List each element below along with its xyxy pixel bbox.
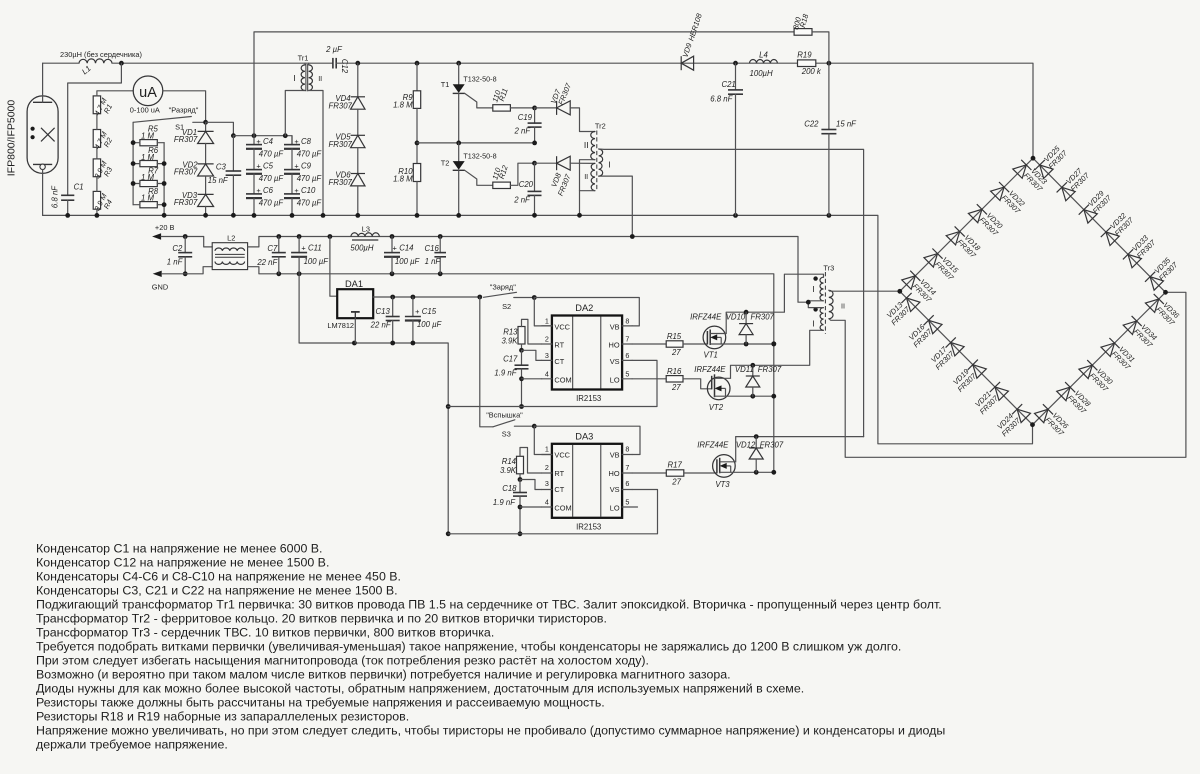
diode VD11 (746, 375, 760, 377)
svg-text:6: 6 (625, 479, 629, 488)
IC DA3 IR2153 (552, 444, 622, 518)
C22 labels (804, 120, 857, 129)
wire Tr3 II top to diamond left (829, 289, 900, 292)
capacitor C17 (515, 364, 529, 366)
svg-text:Резисторы R18 и R19 наборные и: Резисторы R18 и R19 наборные из запаралл… (36, 710, 409, 724)
nodes C17/COM (519, 376, 524, 409)
svg-text:+: + (294, 162, 298, 171)
notes text block (36, 542, 945, 752)
diode VD23 (1013, 160, 1032, 179)
wire (510, 107, 534, 109)
S2 label (502, 302, 511, 311)
wire meter to S1 node (163, 91, 206, 123)
wire S1 node to C3 node (206, 122, 234, 135)
wire pin8 stub (622, 454, 632, 456)
wire R2-R3 (96, 147, 98, 159)
C8 labels (294, 137, 322, 158)
svg-text:II: II (584, 172, 588, 181)
svg-text:Tr3: Tr3 (823, 264, 834, 273)
wire +12V down to S3 (480, 297, 493, 427)
svg-text:3.9K: 3.9K (500, 466, 517, 475)
R12 labels (490, 164, 510, 181)
VD7 labels (549, 81, 574, 106)
VD10 labels (726, 312, 775, 321)
wire (534, 127, 536, 143)
wire +20V to DA1 (330, 237, 337, 297)
svg-text:+: + (256, 186, 260, 195)
wire T1 cathode (458, 93, 460, 142)
svg-text:100 µF: 100 µF (395, 257, 421, 266)
wire lamp top to L1 (42, 63, 44, 102)
VD21 labels (972, 387, 1001, 416)
voltage regulator DA1 (337, 289, 373, 318)
svg-text:FR307: FR307 (174, 198, 198, 207)
diode VD33 (1123, 249, 1142, 267)
L2 label (227, 234, 235, 243)
wire S3 contact (514, 425, 534, 427)
svg-text:1 nF: 1 nF (425, 257, 442, 266)
resistor R8 (140, 202, 157, 208)
wire GND to L2 (162, 267, 213, 274)
wire (133, 204, 140, 206)
wire R1 to meter (97, 91, 133, 96)
svg-text:HO: HO (609, 469, 620, 478)
wire (416, 108, 418, 163)
svg-text:R15: R15 (667, 332, 682, 341)
VD18 labels (955, 232, 984, 261)
C13 labels (370, 307, 392, 329)
wire Tr2 IIb to bus (580, 190, 596, 192)
svg-text:100 µF: 100 µF (304, 257, 330, 266)
wire (391, 237, 393, 253)
capacitor C21 (728, 89, 743, 91)
wire C22 to rail (828, 134, 830, 216)
diode VD31 (1101, 338, 1120, 357)
wire diamond edge BL (900, 291, 1033, 424)
R19 labels (797, 51, 822, 77)
svg-text:3.9K: 3.9K (501, 337, 518, 346)
VD12 labels (736, 441, 784, 450)
svg-text:IR2153: IR2153 (576, 394, 601, 403)
svg-text:IR2153: IR2153 (576, 522, 601, 531)
wire T2 gate (465, 170, 493, 185)
nodes right bus (162, 161, 167, 207)
C2 labels (167, 244, 184, 267)
VD14 labels (911, 276, 940, 305)
svg-text:FR307: FR307 (328, 178, 352, 187)
svg-text:22 nF: 22 nF (370, 320, 392, 329)
svg-text:470 µF: 470 µF (297, 150, 323, 159)
svg-text:0-100 uA: 0-100 uA (130, 106, 160, 115)
inductor L4 (750, 60, 778, 64)
svg-text:C7: C7 (267, 244, 278, 253)
R15 labels (667, 332, 682, 357)
wire Tr2 IIa to rail (580, 160, 596, 216)
wire (416, 63, 418, 91)
C14 labels (393, 244, 421, 267)
svg-text:I: I (812, 319, 814, 329)
VD22 labels (1000, 187, 1029, 216)
C5 labels (256, 162, 284, 183)
VD32 labels (1107, 209, 1136, 238)
IC DA2 IR2153 (552, 316, 622, 390)
svg-text:2: 2 (545, 335, 549, 344)
wire ground chain (299, 274, 448, 534)
svg-text:+20 В: +20 В (155, 223, 175, 232)
svg-text:DA2: DA2 (575, 303, 593, 313)
capacitor C19 (528, 122, 542, 124)
wire (291, 174, 293, 194)
svg-text:R19: R19 (797, 51, 812, 60)
diode VD35 (1145, 272, 1164, 291)
resistor R18 (794, 29, 812, 36)
wire to DA2 VCC (534, 298, 552, 326)
node C2 top (183, 234, 188, 239)
VD20 labels (978, 209, 1007, 238)
wire pin3 stub (542, 489, 552, 491)
svg-text:3: 3 (545, 479, 549, 488)
nodes C4/C8 top (252, 133, 288, 138)
svg-text:II: II (318, 74, 322, 83)
C19 labels (513, 113, 532, 136)
svg-text:LO: LO (610, 375, 620, 384)
transformer Tr3 (813, 272, 833, 334)
R5 labels (141, 125, 158, 141)
lamp type label (6, 100, 18, 177)
wire (253, 136, 255, 145)
wire (535, 162, 557, 164)
capacitor C3 (226, 170, 242, 172)
wire VD7 to Tr2 (570, 108, 595, 132)
R2 labels (92, 129, 114, 150)
wire L1 to C12 (112, 62, 333, 64)
resistor R2 (93, 130, 100, 148)
svg-text:R17: R17 (668, 461, 683, 470)
wire (304, 63, 306, 65)
svg-text:C2: C2 (172, 244, 183, 253)
svg-text:T1: T1 (441, 80, 450, 89)
svg-text:LO: LO (610, 504, 620, 513)
wire (357, 63, 359, 97)
L1 labels (60, 50, 142, 76)
inductor L2 (212, 243, 247, 270)
wire to C1 (68, 63, 122, 195)
wire (534, 163, 536, 191)
svg-text:"Разряд": "Разряд" (169, 106, 199, 115)
wire pin1 stub (542, 325, 552, 327)
svg-text:VD12: VD12 (736, 441, 756, 450)
VD4 labels (328, 94, 352, 111)
wire to DA3 VCC (534, 426, 552, 454)
capacitor C10 (284, 193, 300, 195)
node Tr3 center tap (806, 300, 811, 305)
svg-text:II: II (841, 302, 845, 311)
svg-text:27: 27 (671, 477, 681, 486)
R13 labels (501, 328, 518, 346)
wire (458, 63, 460, 84)
svg-text:C1: C1 (74, 183, 84, 192)
DA1 labels (327, 279, 363, 330)
wire Tr2 I bottom to +20V (599, 176, 633, 236)
VD17 labels (928, 343, 957, 372)
wire diamond edge TR (1033, 158, 1166, 292)
R4 labels (92, 191, 114, 212)
C10 labels (294, 186, 322, 207)
resistor R4 (93, 191, 100, 209)
resistor R13 (518, 327, 525, 345)
wire pin5 stub open (622, 506, 637, 508)
switch label "Vspyshka" (486, 411, 523, 420)
wire R5-R8 right bus (163, 143, 165, 216)
R7 labels (141, 166, 159, 182)
resistor R14 (517, 456, 524, 474)
capacitor C11 (291, 252, 307, 254)
diode VD22 (991, 182, 1010, 201)
wire pin5 stub (622, 378, 632, 380)
wire (253, 174, 255, 194)
wire R18 right (812, 32, 829, 63)
C3 labels (208, 162, 229, 185)
capacitor C20 (528, 190, 542, 192)
svg-text:C21: C21 (721, 80, 735, 89)
wire (232, 136, 234, 171)
Tr2 labels (584, 122, 611, 182)
svg-text:C10: C10 (301, 186, 316, 195)
resistor R15 (666, 341, 683, 347)
svg-text:15 nF: 15 nF (208, 176, 229, 185)
svg-text:I: I (812, 284, 814, 294)
svg-text:+: + (415, 307, 419, 316)
wire (632, 472, 666, 474)
wire R3-R4 (96, 177, 98, 192)
svg-text:VCC: VCC (554, 451, 570, 460)
wire S1 contact (193, 121, 206, 123)
diode VD36 (1145, 294, 1164, 313)
C15 labels (415, 307, 442, 329)
capacitor C16 (434, 252, 446, 254)
arrow +20V (152, 233, 161, 239)
diode VD14 (902, 271, 921, 290)
wire DA1 gnd (354, 318, 356, 343)
svg-text:Конденсатор С1 на напряжение н: Конденсатор С1 на напряжение не менее 60… (36, 542, 323, 556)
R11 labels (490, 87, 509, 103)
wire R14 hook to RT (520, 448, 542, 474)
svg-text:I: I (608, 159, 610, 169)
diode VD34 (1123, 316, 1142, 335)
svg-text:3: 3 (545, 351, 549, 360)
svg-text:C11: C11 (308, 244, 322, 253)
VT2 labels (694, 365, 726, 412)
node DA2 VCC feed (532, 295, 537, 300)
svg-text:Tr2: Tr2 (595, 122, 606, 131)
svg-text:IRFZ44E: IRFZ44E (697, 441, 729, 450)
wire to rail (253, 198, 255, 215)
wire Tr3 center tap (808, 301, 823, 308)
svg-text:VD11: VD11 (735, 365, 754, 374)
capacitor C12 (332, 58, 334, 69)
resistor R16 (666, 376, 683, 382)
wire (412, 321, 414, 344)
DA3 pin labels (545, 445, 630, 513)
wire (253, 149, 255, 170)
capacitor C7 (272, 252, 286, 254)
svg-text:CT: CT (554, 485, 564, 494)
svg-text:VCC: VCC (554, 322, 570, 331)
wire (357, 148, 359, 174)
svg-text:470 µF: 470 µF (297, 174, 323, 183)
svg-text:200 k: 200 k (801, 67, 822, 76)
transistor VT1 IRFZ44E (703, 312, 726, 349)
wire (392, 297, 394, 317)
svg-text:T132-50-8: T132-50-8 (463, 152, 496, 161)
wire VD8 to Tr2 (570, 162, 595, 164)
VD30 labels (1088, 365, 1117, 394)
svg-text:1: 1 (545, 445, 549, 454)
C21 labels (710, 80, 736, 104)
VD27 labels (1063, 165, 1092, 194)
svg-text:C4: C4 (263, 137, 274, 146)
wire (298, 237, 300, 253)
wire (157, 183, 164, 185)
svg-text:2 nF: 2 nF (513, 195, 531, 204)
svg-text:L4: L4 (759, 51, 768, 60)
wire DA1 output (373, 296, 480, 298)
wire (752, 365, 754, 376)
wire C17 bottom (521, 369, 523, 407)
diode VD32 (1101, 227, 1120, 246)
wire (308, 63, 310, 65)
wire pin6 stub (622, 489, 632, 491)
resistor R5 (140, 140, 157, 146)
wire R12 up to VD8 node (510, 163, 534, 185)
T1 labels (441, 75, 497, 90)
wire CT (522, 350, 542, 360)
+20V label (155, 223, 175, 232)
nodes DA1 output line (390, 295, 482, 300)
wire Tr1 II to rail (309, 91, 323, 216)
svg-text:C18: C18 (502, 484, 517, 493)
svg-text:Напряжение можно увеличивать,: Напряжение можно увеличивать, но при это… (36, 724, 945, 738)
svg-text:470 µF: 470 µF (259, 174, 285, 183)
C17 labels (494, 355, 518, 378)
svg-text:L2: L2 (227, 234, 235, 243)
wire (439, 237, 441, 253)
svg-text:+: + (256, 162, 260, 171)
svg-text:C17: C17 (503, 355, 518, 364)
wire (519, 474, 521, 480)
svg-text:2 µF: 2 µF (325, 45, 343, 54)
svg-text:C15: C15 (422, 307, 437, 316)
VD2 labels (174, 160, 198, 176)
wire (157, 204, 164, 206)
wire lamp bottom to rail (42, 170, 44, 216)
thyristor T2 (453, 161, 465, 170)
diode VD3 (198, 193, 214, 195)
wire (519, 480, 521, 493)
wire (133, 142, 140, 144)
diode VD20 (968, 204, 987, 223)
capacitor C22 (821, 129, 836, 131)
VT3 labels (697, 441, 730, 489)
wire (357, 109, 359, 135)
microammeter uA (133, 76, 163, 106)
wire (43, 62, 79, 64)
wire to Tr1 I bottom (285, 91, 304, 136)
svg-text:VD10: VD10 (726, 312, 746, 321)
svg-text:C6: C6 (263, 186, 274, 195)
wire (298, 257, 300, 274)
svg-text:C5: C5 (263, 162, 274, 171)
svg-text:5: 5 (625, 369, 629, 378)
svg-text:7: 7 (625, 463, 629, 472)
wire CT (520, 480, 542, 490)
node DA3 VCC feed (532, 424, 537, 429)
switch label "Zaryad" (490, 283, 517, 292)
svg-text:CT: CT (554, 357, 564, 366)
svg-text:FR307: FR307 (760, 441, 784, 450)
node C19 bottom (532, 141, 537, 146)
capacitor C18 (513, 492, 527, 494)
diode VD2 (198, 163, 214, 165)
svg-text:uA: uA (139, 85, 157, 101)
svg-text:IRFZ44E: IRFZ44E (690, 312, 722, 321)
diode VD9 (680, 56, 682, 70)
C7 labels (256, 244, 278, 267)
capacitor C2 (178, 252, 192, 254)
wire C3 to rail (232, 175, 234, 215)
svg-text:+: + (294, 137, 298, 146)
C12 labels (325, 45, 349, 74)
svg-text:8: 8 (625, 445, 629, 454)
wire (205, 122, 207, 131)
VD29 labels (1085, 187, 1114, 216)
wire pin2 stub (542, 343, 552, 345)
capacitor C9 (284, 169, 300, 171)
wire to VT1 gate (683, 343, 708, 345)
wire (291, 149, 293, 170)
diode VD19 (968, 360, 987, 379)
wire to DA3 VB (534, 426, 640, 454)
svg-text:VT1: VT1 (704, 350, 718, 359)
diode VD29 (1079, 205, 1098, 224)
svg-text:1 M: 1 M (141, 153, 155, 162)
svg-text:15 nF: 15 nF (836, 120, 857, 129)
svg-text:VT2: VT2 (709, 403, 724, 412)
svg-text:FR307: FR307 (328, 140, 352, 149)
wire R13 hook to RT (522, 319, 542, 344)
wire VT1 source (710, 343, 774, 345)
svg-text:HO: HO (609, 341, 620, 350)
switch S1 arm (133, 117, 191, 123)
diode VD15 (924, 249, 943, 268)
diode VD10 (739, 323, 753, 325)
svg-text:II: II (584, 140, 589, 150)
VD13 labels (883, 298, 912, 327)
C4 labels (256, 137, 284, 158)
wire (278, 257, 280, 274)
svg-text:+: + (301, 244, 305, 253)
node C2 bottom (183, 271, 188, 276)
transformer Tr2 (591, 131, 603, 192)
svg-text:4: 4 (545, 369, 549, 378)
svg-text:27: 27 (671, 348, 681, 357)
svg-text:C22: C22 (804, 120, 819, 129)
svg-text:GND: GND (152, 283, 168, 292)
wire (534, 195, 536, 215)
wire T2 cathode to rail (458, 170, 460, 215)
wire main HV line to diamond top (336, 63, 1033, 158)
svg-text:230µH (без сердечника): 230µH (без сердечника) (60, 50, 142, 59)
